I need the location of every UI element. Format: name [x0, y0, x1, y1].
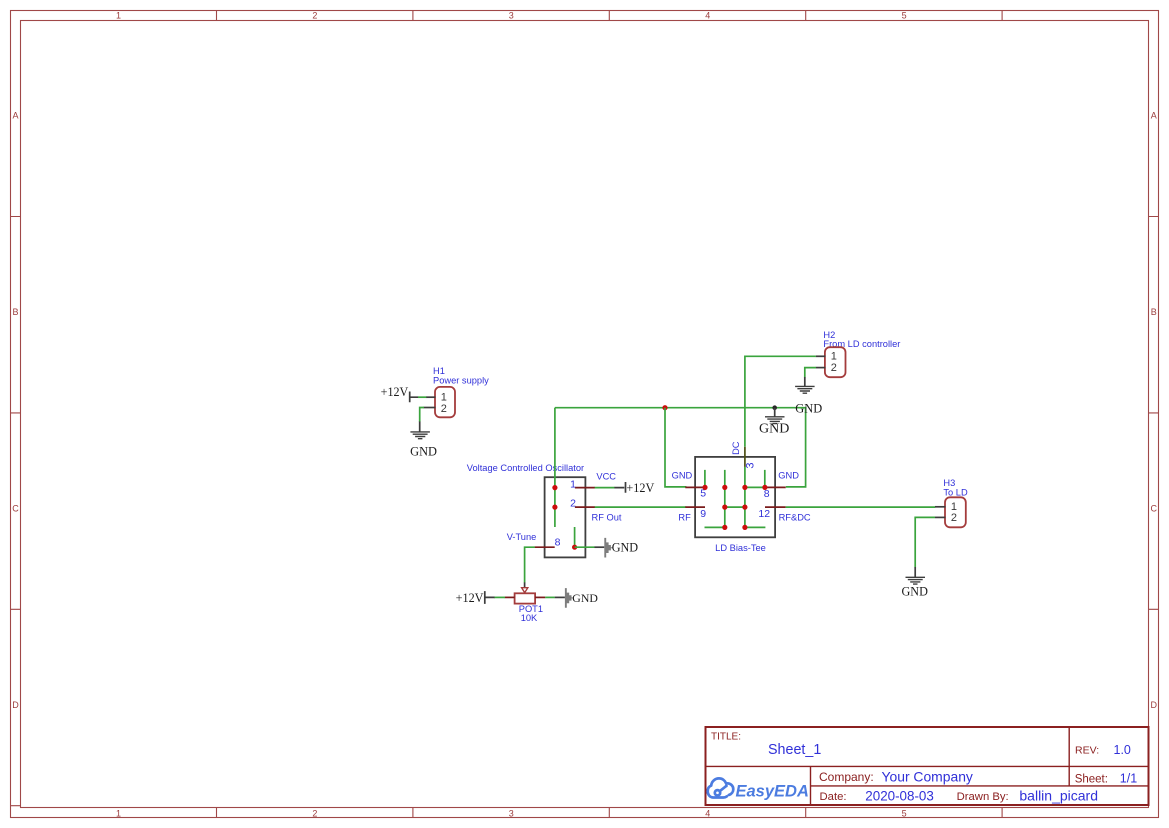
svg-text:Voltage Controlled Oscillator: Voltage Controlled Oscillator [467, 463, 584, 473]
ground flag GND at POT1 [555, 588, 599, 608]
svg-text:REV:: REV: [1075, 745, 1099, 757]
svg-text:LD Bias-Tee: LD Bias-Tee [715, 543, 766, 553]
svg-text:D: D [12, 700, 19, 710]
svg-text:ballin_picard: ballin_picard [1019, 788, 1098, 804]
svg-text:10K: 10K [521, 613, 538, 623]
svg-text:1: 1 [570, 478, 576, 490]
svg-text:4: 4 [705, 10, 710, 20]
svg-text:5: 5 [902, 809, 907, 819]
wire VCO gnd pin to flag [575, 546, 595, 548]
svg-text:2: 2 [951, 512, 957, 524]
svg-text:Power supply: Power supply [433, 376, 489, 386]
svg-text:Your Company: Your Company [882, 768, 973, 784]
connector H3 [935, 478, 968, 527]
wire VCO internal vertical (GND net drop) [554, 408, 556, 527]
svg-text:1: 1 [441, 392, 447, 404]
svg-text:D: D [1151, 700, 1158, 710]
connector H2 [816, 330, 901, 377]
junctions bias-tee row1 [702, 485, 707, 490]
bias-tee internal pin stubs [705, 467, 765, 528]
pin 8 GND of bias-tee [764, 471, 800, 500]
title block [706, 727, 1149, 805]
svg-text:C: C [12, 504, 19, 514]
svg-text:12: 12 [758, 508, 770, 520]
pin 1 VCC of VCO [570, 472, 616, 491]
svg-text:DC: DC [731, 441, 741, 455]
svg-text:1: 1 [116, 809, 121, 819]
ground flag GND at H2 [795, 377, 815, 393]
svg-text:3: 3 [745, 463, 757, 469]
wire H1 pin2 to ground [420, 408, 424, 423]
svg-text:GND: GND [572, 591, 598, 605]
component Voltage Controlled Oscillator [467, 463, 586, 558]
junction at VCO gnd pin [572, 545, 577, 550]
pin 5 GND of bias-tee [672, 471, 707, 500]
wire branch to bias-tee GND pin5 [665, 408, 686, 487]
svg-text:2: 2 [570, 498, 576, 510]
svg-text:RF: RF [678, 512, 691, 522]
svg-text:V-Tune: V-Tune [507, 532, 537, 542]
wire H2 pin2 to ground [805, 368, 816, 378]
svg-text:8: 8 [555, 537, 561, 549]
svg-text:TITLE:: TITLE: [711, 732, 741, 743]
svg-text:GND: GND [672, 471, 693, 481]
svg-text:2: 2 [312, 809, 317, 819]
svg-text:2: 2 [441, 403, 447, 415]
svg-text:5: 5 [902, 10, 907, 20]
pin 9 RF of bias-tee [678, 507, 706, 522]
svg-text:RF&DC: RF&DC [779, 512, 811, 522]
bias-tee internal links [705, 487, 766, 527]
svg-text:2: 2 [312, 10, 317, 20]
pin 12 RF&DC of bias-tee [758, 507, 811, 522]
wire GND net top rail [555, 408, 806, 487]
potentiometer POT1 [505, 582, 546, 623]
svg-text:1: 1 [831, 351, 837, 363]
svg-text:H1: H1 [433, 366, 445, 376]
svg-text:C: C [1151, 504, 1158, 514]
pin 8 V-Tune of VCO [507, 532, 561, 549]
svg-text:GND: GND [759, 421, 789, 436]
wire H2 pin1 to bias-tee DC [745, 356, 816, 447]
svg-text:+12V: +12V [381, 385, 409, 399]
ground flag GND at H1 [410, 422, 437, 459]
svg-text:3: 3 [509, 809, 514, 819]
svg-text:2020-08-03: 2020-08-03 [865, 788, 934, 803]
netflag +12V at H1 [381, 385, 419, 403]
wire H1 pin1 [418, 396, 426, 398]
svg-text:VCC: VCC [596, 472, 616, 482]
svg-text:Company:: Company: [819, 770, 874, 784]
svg-text:Date:: Date: [820, 791, 847, 803]
junction GND rail branch [662, 405, 667, 410]
svg-text:Drawn By:: Drawn By: [957, 791, 1009, 803]
svg-text:1/1: 1/1 [1120, 772, 1137, 786]
junctions bias-tee row2 [722, 505, 727, 510]
wire POT1 left [495, 596, 506, 598]
junction at VCO pin1 [552, 485, 557, 490]
wire VCO pin2 to bias-tee RF [595, 506, 687, 508]
svg-text:Sheet_1: Sheet_1 [768, 742, 821, 758]
svg-text:To LD: To LD [943, 487, 968, 497]
svg-text:GND: GND [795, 401, 822, 415]
svg-text:2: 2 [831, 362, 837, 374]
pin 3 DC of bias-tee [731, 441, 757, 468]
EasyEDA logo [708, 778, 734, 797]
wire VCO pin8 to POT wiper [525, 547, 535, 582]
connector H1 [424, 366, 490, 417]
svg-text:B: B [12, 307, 18, 317]
svg-text:1.0: 1.0 [1114, 743, 1131, 757]
junction at VCO pin2 [552, 505, 557, 510]
svg-text:A: A [12, 111, 18, 121]
svg-text:RF Out: RF Out [592, 513, 622, 523]
netflag +12V at VCO pin1 [595, 481, 655, 495]
ground flag GND on rail [759, 408, 789, 437]
svg-text:Sheet:: Sheet: [1075, 774, 1108, 786]
pin 2 RF Out of VCO [570, 498, 622, 523]
component LD Bias-Tee [695, 457, 775, 553]
junctions bias-tee row3 [722, 525, 727, 530]
svg-text:EasyEDA: EasyEDA [736, 783, 809, 801]
svg-text:+12V: +12V [456, 591, 484, 605]
svg-text:GND: GND [612, 541, 639, 555]
wire bias-tee pin12 to H3 pin1 [786, 506, 936, 508]
svg-text:1: 1 [116, 10, 121, 20]
svg-text:A: A [1151, 111, 1157, 121]
svg-text:GND: GND [778, 471, 799, 481]
wire POT1 right [545, 596, 555, 598]
svg-text:GND: GND [410, 444, 437, 458]
svg-text:3: 3 [509, 10, 514, 20]
netflag +12V at POT1 [456, 591, 495, 605]
svg-text:GND: GND [901, 584, 928, 598]
wire VCO internal pin stub [574, 527, 576, 547]
svg-text:9: 9 [700, 508, 706, 520]
ground flag GND at H3 [901, 567, 928, 598]
svg-text:4: 4 [705, 809, 710, 819]
net port dot GND [772, 405, 777, 410]
svg-text:B: B [1151, 307, 1157, 317]
svg-text:+12V: +12V [626, 481, 654, 495]
wire H3 pin2 to ground [915, 517, 935, 567]
ground flag GND at VCO [595, 538, 639, 558]
